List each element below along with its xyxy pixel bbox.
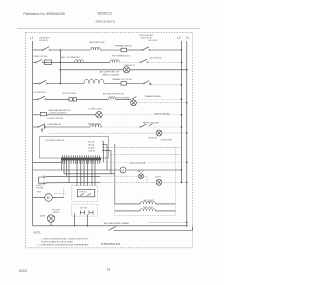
svg-text:BROIL HI LIMIT: BROIL HI LIMIT — [143, 122, 160, 124]
svg-text:MOT: MOT — [37, 192, 42, 194]
svg-text:ANTI TIP BRACKET: ANTI TIP BRACKET — [61, 56, 81, 59]
svg-text:M: M — [47, 196, 50, 200]
svg-text:2 OVEN LTS SUPPLY: 2 OVEN LTS SUPPLY — [49, 112, 67, 114]
svg-text:1. CIRCUIT SHOWN WITH ALL CONT: 1. CIRCUIT SHOWN WITH ALL CONTROLS SET I… — [41, 237, 89, 240]
svg-text:POSITION AND DOOR CLOSED: POSITION AND DOOR CLOSED — [41, 241, 73, 244]
svg-text:LATCH: LATCH — [53, 211, 60, 214]
svg-text:LATCH SOLENOID: LATCH SOLENOID — [150, 57, 162, 60]
svg-text:2 OVEN LIGHTS: 2 OVEN LIGHTS — [88, 109, 103, 111]
svg-text:OVEN IND LIGHT: OVEN IND LIGHT — [148, 137, 158, 139]
svg-text:PROBE: PROBE — [36, 187, 44, 189]
svg-text:AT SUPPORT OF: AT SUPPORT OF — [100, 71, 120, 74]
svg-text:MOTOR DOOR LATCH: MOTOR DOOR LATCH — [62, 92, 76, 95]
svg-text:THERMAL CUT OUT SW: THERMAL CUT OUT SW — [112, 78, 133, 81]
svg-text:Publication No. 5995434255: Publication No. 5995434255 — [23, 12, 64, 16]
svg-text:L1: L1 — [30, 36, 34, 40]
svg-text:TOD CLOCK MOTOR: TOD CLOCK MOTOR — [130, 163, 146, 165]
svg-text:2 BROIL RELAY: 2 BROIL RELAY — [154, 112, 171, 115]
svg-text:A LAMP: A LAMP — [40, 215, 46, 218]
svg-text:LOWER BAR SW: LOWER BAR SW — [47, 123, 61, 126]
svg-text:(LOCK SWITCH): (LOCK SWITCH) — [39, 40, 48, 42]
svg-text:LOWER OVEN SW: LOWER OVEN SW — [47, 118, 63, 120]
svg-text:P5995018: P5995018 — [101, 242, 120, 246]
svg-text:THERMAL SWITCH: THERMAL SWITCH — [114, 44, 132, 47]
svg-text:L2: L2 — [177, 36, 181, 40]
svg-text:DOOR LATCH SW: DOOR LATCH SW — [34, 91, 47, 94]
svg-text:LIGHT: LIGHT — [155, 177, 162, 179]
svg-text:OVEN DOOR SW: OVEN DOOR SW — [148, 40, 157, 42]
svg-text:WIRING SC-49AA-TQ: WIRING SC-49AA-TQ — [96, 20, 116, 24]
svg-text:NOTE:: NOTE: — [33, 231, 41, 235]
svg-text:HOT SURFACE IND LT: HOT SURFACE IND LT — [112, 54, 131, 57]
svg-text:13: 13 — [107, 267, 111, 271]
svg-text:ELECTRONIC OVEN CTRL: ELECTRONIC OVEN CTRL — [46, 140, 65, 142]
svg-text:36E93CC2: 36E93CC2 — [97, 11, 112, 15]
svg-text:AT THE DOOR OF SW: AT THE DOOR OF SW — [103, 93, 125, 96]
svg-text:BK-2A: BK-2A — [88, 144, 94, 147]
svg-text:DR SW: DR SW — [80, 208, 87, 210]
svg-text:BAKE ELEMENT 2600W: BAKE ELEMENT 2600W — [89, 41, 105, 44]
svg-text:SWITCH ON: SWITCH ON — [141, 37, 152, 39]
svg-text:GND-A: GND-A — [88, 150, 95, 153]
svg-text:6/104: 6/104 — [19, 269, 27, 273]
svg-text:2 ELEMENT RELAY: 2 ELEMENT RELAY — [160, 138, 172, 141]
svg-text:BK GROUND WIRE: BK GROUND WIRE — [104, 223, 130, 225]
svg-text:1 BAKE RELAY: 1 BAKE RELAY — [145, 95, 162, 98]
svg-text:BAL LT: BAL LT — [138, 170, 145, 173]
svg-text:2. COMPONENTS SHOWN AT ROOM TE: 2. COMPONENTS SHOWN AT ROOM TEMPERATURE — [38, 244, 90, 247]
svg-text:BROIL 3000W: BROIL 3000W — [103, 74, 120, 76]
svg-text:OVEN TOP SW: OVEN TOP SW — [33, 56, 48, 58]
svg-text:BK-1A: BK-1A — [88, 141, 94, 144]
svg-text:OVEN LT: OVEN LT — [79, 192, 88, 194]
svg-text:DLB-A: DLB-A — [88, 147, 95, 150]
